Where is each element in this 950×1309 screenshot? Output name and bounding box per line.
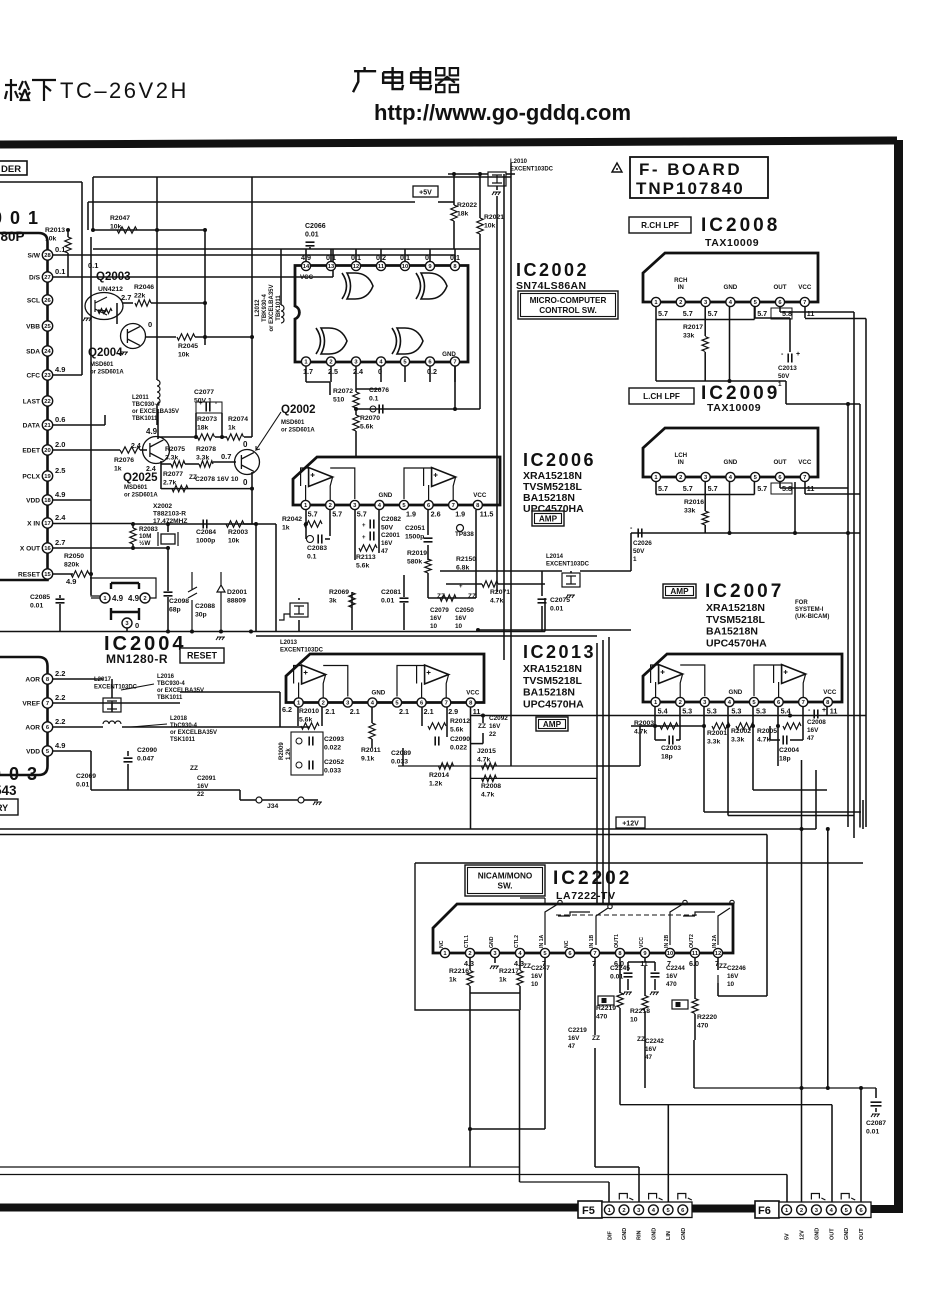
svg-text:C2244: C2244 <box>666 965 685 972</box>
wire <box>427 573 429 598</box>
ground <box>216 637 225 640</box>
svg-text:10k: 10k <box>110 223 122 230</box>
svg-text:30p: 30p <box>195 611 207 618</box>
svg-text:33k: 33k <box>683 332 695 339</box>
wire <box>470 992 520 994</box>
wire bus <box>827 829 829 1088</box>
svg-text:5.6k: 5.6k <box>360 423 373 430</box>
svg-text:GND: GND <box>622 1228 628 1240</box>
ground clip <box>619 1194 633 1201</box>
wire rail <box>0 1174 787 1176</box>
svg-text:C2083: C2083 <box>307 545 327 552</box>
wire <box>704 352 706 381</box>
svg-text:R2150: R2150 <box>456 556 476 563</box>
svg-text:FOR: FOR <box>795 600 808 606</box>
wire <box>628 961 655 963</box>
svg-text:20: 20 <box>44 448 50 454</box>
svg-text:NICAM/MONO: NICAM/MONO <box>478 871 533 880</box>
svg-text:R2219: R2219 <box>596 1005 616 1012</box>
svg-text:88809: 88809 <box>227 597 246 604</box>
capacitor <box>424 538 433 542</box>
svg-text:or 2SD601A: or 2SD601A <box>124 493 158 499</box>
connector F5 pin 1 <box>604 1205 614 1215</box>
svg-text:10k: 10k <box>45 235 57 242</box>
wire <box>656 319 754 321</box>
svg-text:4.9: 4.9 <box>55 741 65 750</box>
svg-text:CTL1: CTL1 <box>464 935 470 948</box>
op-amp <box>782 665 806 684</box>
svg-text:NC: NC <box>564 940 570 948</box>
resistor <box>482 775 497 781</box>
wire <box>644 958 646 962</box>
svg-text:2: 2 <box>679 475 682 481</box>
svg-text:10k: 10k <box>228 537 240 544</box>
wire <box>126 628 128 632</box>
svg-text:TbC930-4: TbC930-4 <box>170 723 198 729</box>
wire <box>594 1048 596 1167</box>
wire <box>454 255 456 261</box>
wire pin <box>355 366 357 382</box>
wire <box>786 403 860 405</box>
junction <box>751 724 755 728</box>
svg-text:7: 7 <box>803 475 806 481</box>
pin 8 <box>823 697 832 706</box>
junction <box>793 531 797 535</box>
wire <box>644 966 646 996</box>
svg-text:R2010: R2010 <box>299 708 319 715</box>
svg-text:0.01: 0.01 <box>550 605 563 612</box>
svg-text:0.022: 0.022 <box>324 744 341 751</box>
ground <box>490 966 499 969</box>
wire <box>427 545 429 560</box>
capacitor <box>56 599 65 603</box>
svg-text:IN: IN <box>678 459 685 466</box>
label box <box>536 717 568 731</box>
ground clip <box>811 1194 825 1201</box>
junction <box>452 172 456 176</box>
wire bus <box>853 312 855 838</box>
pin 1 <box>651 697 660 706</box>
junction <box>776 724 780 728</box>
wire <box>805 318 866 320</box>
svg-text:7: 7 <box>445 701 448 707</box>
capacitor <box>206 403 210 412</box>
wire bus <box>93 248 479 250</box>
junction <box>203 335 207 339</box>
svg-text:5.7: 5.7 <box>708 309 718 318</box>
svg-text:R2011: R2011 <box>361 747 381 754</box>
svg-text:Q2002: Q2002 <box>281 404 316 416</box>
junction <box>304 522 308 526</box>
svg-text:11: 11 <box>692 951 699 957</box>
pin 6 <box>775 472 784 481</box>
F-BOARD title box <box>630 157 768 198</box>
wire bus <box>496 196 498 592</box>
connector F5 pin 5 <box>663 1205 673 1215</box>
capacitor <box>651 973 660 977</box>
wire IN1A net <box>520 898 545 904</box>
svg-text:UN4212: UN4212 <box>98 286 123 293</box>
svg-text:50V: 50V <box>633 548 645 555</box>
IC2001 pin 18 VDD <box>42 495 52 505</box>
svg-text:2.4: 2.4 <box>353 367 363 376</box>
junction <box>131 522 135 526</box>
svg-text:C2087: C2087 <box>866 1120 886 1127</box>
wire <box>655 739 666 741</box>
resistor (Q2003 internal) <box>98 309 112 314</box>
wire net X IN <box>53 523 131 525</box>
wire <box>329 510 331 524</box>
wire <box>544 598 546 632</box>
IC2001 pin 28 S/W <box>42 250 52 260</box>
wire <box>321 707 323 726</box>
svg-text:C2242: C2242 <box>645 1038 664 1045</box>
svg-text:C2098: C2098 <box>169 598 189 605</box>
wire <box>325 538 330 540</box>
svg-text:17: 17 <box>44 521 50 527</box>
svg-text:R2005: R2005 <box>757 728 777 735</box>
junction <box>800 1086 804 1090</box>
svg-text:22: 22 <box>489 731 497 738</box>
wire <box>802 726 804 740</box>
wire <box>304 523 306 525</box>
wire op-amp A <box>651 665 705 697</box>
svg-text:Q2025: Q2025 <box>123 472 158 484</box>
wire <box>608 1182 610 1203</box>
svg-text:GND: GND <box>844 1228 850 1240</box>
svg-text:or EXCELBA35V: or EXCELBA35V <box>132 409 179 415</box>
svg-text:C2091: C2091 <box>197 775 216 782</box>
wire bus <box>544 958 546 1129</box>
pin 3 <box>701 472 710 481</box>
label box <box>180 648 224 663</box>
svg-text:R2021: R2021 <box>484 214 504 221</box>
svg-text:0.01: 0.01 <box>866 1128 879 1135</box>
connector F5 pin 2 <box>619 1205 629 1215</box>
wire net EDET <box>53 449 120 451</box>
svg-text:5.7: 5.7 <box>757 484 767 493</box>
pin 6 <box>774 697 783 706</box>
wire bus <box>865 319 867 828</box>
junction <box>846 531 850 535</box>
IC2002 pin 11 <box>376 261 385 270</box>
junction <box>476 628 480 632</box>
wire <box>215 436 227 438</box>
wire <box>305 524 307 539</box>
IC2002 pin 3 <box>351 357 360 366</box>
wire <box>753 482 755 495</box>
wire <box>378 510 380 553</box>
pin 4 <box>726 297 735 306</box>
resistor <box>130 528 136 544</box>
junction <box>91 228 95 232</box>
svg-text:EXCENT103DC: EXCENT103DC <box>510 167 554 173</box>
svg-text:2.1: 2.1 <box>399 707 409 716</box>
IC2001 pin 20 EDET <box>42 445 52 455</box>
svg-text:0.033: 0.033 <box>391 758 408 765</box>
wire <box>704 320 706 337</box>
IC2002 pin 2 <box>326 357 335 366</box>
wire op-amp A <box>294 666 348 698</box>
svg-text:DER: DER <box>1 164 21 175</box>
wire net DATA <box>53 424 105 426</box>
svg-text:R2017: R2017 <box>683 324 703 331</box>
connector F6 pin 1 <box>782 1205 792 1215</box>
IC2003 pin 6 AOR <box>42 722 52 732</box>
wire <box>59 604 61 632</box>
svg-text:EXCENT103DC: EXCENT103DC <box>94 685 138 691</box>
svg-text:2.4: 2.4 <box>131 443 141 450</box>
wire <box>127 751 129 756</box>
svg-text:33k: 33k <box>684 507 696 514</box>
svg-text:2: 2 <box>679 300 682 306</box>
switch SW1 (IN 1A) <box>545 904 608 945</box>
svg-text:TBC930-4: TBC930-4 <box>157 681 185 687</box>
svg-text:0 0 3: 0 0 3 <box>0 764 39 784</box>
svg-text:OUT: OUT <box>773 459 786 466</box>
wire <box>122 726 310 728</box>
svg-text:2.1: 2.1 <box>424 707 434 716</box>
svg-text:C2052: C2052 <box>324 759 344 766</box>
wire <box>655 482 657 495</box>
wire <box>448 173 488 175</box>
junction <box>249 630 253 634</box>
connector F6 pin 2 <box>797 1205 807 1215</box>
connector F6 pin 3 <box>812 1205 822 1215</box>
svg-text:R2019: R2019 <box>407 550 427 557</box>
svg-text:R2042: R2042 <box>282 516 302 523</box>
wire <box>694 958 696 999</box>
capacitor <box>164 592 173 596</box>
svg-text:C2004: C2004 <box>779 747 799 754</box>
IC2001 pin 19 PCLX <box>42 471 52 481</box>
svg-text:L.CH LPF: L.CH LPF <box>643 392 680 401</box>
junction <box>702 724 706 728</box>
svg-text:ZZ: ZZ <box>592 1035 600 1042</box>
label box DER (decoder) <box>0 161 27 175</box>
junction <box>826 827 830 831</box>
pin 3 <box>350 500 359 509</box>
IC2202 pin 6 NC <box>565 948 574 957</box>
wire <box>654 726 656 740</box>
IC2002 pin 12 <box>351 261 360 270</box>
svg-text:MSD601: MSD601 <box>124 485 148 491</box>
svg-text:0: 0 <box>135 621 139 630</box>
svg-text:ZZ: ZZ <box>637 1036 645 1043</box>
svg-text:TBK1011: TBK1011 <box>157 695 183 701</box>
svg-text:SDA: SDA <box>26 349 40 356</box>
svg-text:4.9: 4.9 <box>146 427 158 436</box>
svg-text:1k: 1k <box>449 976 457 983</box>
svg-text:10M: 10M <box>139 533 151 540</box>
svg-text:7: 7 <box>46 701 49 707</box>
svg-text:10: 10 <box>667 951 673 957</box>
svg-text:47: 47 <box>381 548 389 555</box>
svg-text:R2073: R2073 <box>197 416 217 423</box>
svg-text:RESET: RESET <box>18 572 40 579</box>
svg-text:1k: 1k <box>114 465 122 472</box>
IC2001 pin 17 X IN <box>42 518 52 528</box>
svg-text:510: 510 <box>333 396 345 403</box>
svg-text:5.6k: 5.6k <box>356 562 369 569</box>
wire pin <box>679 707 681 726</box>
svg-text:5.3: 5.3 <box>756 707 766 716</box>
network box (R2009) <box>291 732 323 775</box>
svg-text:18p: 18p <box>661 753 673 760</box>
pin 2 <box>676 297 685 306</box>
wire rail <box>470 1128 545 1130</box>
svg-text:ZZ: ZZ <box>523 963 531 970</box>
svg-text:C2076: C2076 <box>369 387 389 394</box>
wire <box>111 679 113 698</box>
pin 4 <box>725 697 734 706</box>
IC2001 pin 24 SDA <box>42 346 52 356</box>
wire net X OUT <box>53 547 131 549</box>
cjk glyph <box>32 80 56 101</box>
label box MEMORY (partial) <box>0 799 18 815</box>
wire pin <box>454 249 456 261</box>
pin 5 <box>751 297 760 306</box>
svg-text:2.2: 2.2 <box>55 717 65 726</box>
svg-text:16V: 16V <box>489 723 501 730</box>
capacitor C2083 value 0.1 <box>307 536 314 543</box>
IC2202 pin 7 IN 1B <box>590 948 599 957</box>
svg-text:IN 1A: IN 1A <box>539 934 545 948</box>
svg-text:TSK1011: TSK1011 <box>170 737 196 743</box>
IC2202 pin 9 VCC <box>640 948 649 957</box>
resistor <box>482 763 497 769</box>
resistor <box>660 723 678 729</box>
wire <box>729 482 731 533</box>
svg-text:580k: 580k <box>407 558 422 565</box>
svg-text:18p: 18p <box>779 755 791 762</box>
svg-text:5V: 5V <box>785 1233 791 1240</box>
capacitor <box>669 736 673 745</box>
resistor <box>65 237 71 253</box>
IC2003 pin 8 AOR <box>42 674 52 684</box>
svg-text:Q2003: Q2003 <box>96 271 131 283</box>
callout arrow <box>256 412 281 450</box>
svg-text:5.3: 5.3 <box>682 707 692 716</box>
svg-text:C2090: C2090 <box>137 747 157 754</box>
pin 4 <box>368 698 377 707</box>
wire bus <box>859 404 861 828</box>
svg-text:470: 470 <box>697 1022 709 1029</box>
svg-text:16V: 16V <box>645 1046 657 1053</box>
svg-text:RESET: RESET <box>187 651 218 661</box>
svg-text:C2219: C2219 <box>568 1027 587 1034</box>
resistor <box>440 595 456 601</box>
capacitor <box>435 737 439 746</box>
wire <box>438 201 454 203</box>
wire <box>89 573 91 575</box>
svg-text:+: + <box>796 351 800 358</box>
wire <box>704 811 861 813</box>
resistor <box>467 971 473 986</box>
svg-text:XRA15218N: XRA15218N <box>523 663 582 675</box>
svg-text:L2011: L2011 <box>132 395 149 401</box>
wire pin <box>380 366 382 382</box>
svg-text:5.7: 5.7 <box>658 309 668 318</box>
svg-text:4.9: 4.9 <box>55 490 65 499</box>
wire <box>654 962 656 971</box>
wire <box>403 603 405 630</box>
junction <box>846 402 850 406</box>
wire <box>446 707 448 737</box>
IC2002 pin 13 <box>326 261 335 270</box>
transistor <box>143 437 170 464</box>
wire <box>167 548 169 591</box>
svg-text:C2085: C2085 <box>30 594 50 601</box>
resistor <box>226 521 244 527</box>
svg-text:R2069: R2069 <box>329 589 349 596</box>
junction <box>254 522 258 526</box>
wire <box>251 472 253 489</box>
svg-text:C2081: C2081 <box>381 589 401 596</box>
transistor <box>235 450 260 475</box>
svg-text:EDET: EDET <box>22 448 40 455</box>
svg-text:VDD: VDD <box>26 498 40 505</box>
wire rail <box>471 715 867 717</box>
switch SW2 (IN 2B) <box>670 904 730 945</box>
wire rail <box>471 777 598 779</box>
svg-text:C2090: C2090 <box>450 736 470 743</box>
wire <box>355 408 357 415</box>
svg-text:7: 7 <box>803 300 806 306</box>
svg-text:R2050: R2050 <box>64 553 84 560</box>
resistor <box>171 461 185 467</box>
wire <box>656 494 754 496</box>
wire <box>415 862 863 864</box>
svg-text:1.2k: 1.2k <box>429 780 442 787</box>
wire rail <box>256 635 597 637</box>
wire <box>479 174 481 218</box>
svg-text:16V: 16V <box>727 973 739 980</box>
svg-text:11: 11 <box>807 309 815 318</box>
wire <box>111 703 113 712</box>
svg-text:GND: GND <box>489 936 495 948</box>
wire <box>355 382 357 392</box>
IC2003 pin 7 VREF <box>42 698 52 708</box>
wire rail <box>0 631 545 633</box>
svg-text:0.01: 0.01 <box>381 597 394 604</box>
wire <box>704 307 706 320</box>
svg-text:R2045: R2045 <box>178 343 198 350</box>
svg-text:TP838: TP838 <box>455 531 474 538</box>
junction <box>89 572 93 576</box>
ground clip <box>649 1194 663 1201</box>
capacitor <box>203 520 207 529</box>
jumper icon 2 <box>672 1000 688 1009</box>
triangle marker <box>612 163 622 172</box>
svg-text:12V: 12V <box>800 1230 806 1240</box>
capacitor <box>306 242 315 246</box>
svg-text:10: 10 <box>455 623 463 630</box>
svg-text:0 0 1: 0 0 1 <box>0 208 40 228</box>
wire <box>92 177 94 230</box>
wire <box>453 174 455 205</box>
transistor Q2003 ref UN4212 <box>85 293 123 320</box>
svg-text:GND: GND <box>651 1228 657 1240</box>
svg-text:2.5: 2.5 <box>55 466 65 475</box>
wire <box>446 583 482 585</box>
wire <box>594 958 596 1035</box>
wire bus <box>93 176 511 178</box>
wire <box>332 249 334 277</box>
svg-text:4.7k: 4.7k <box>477 756 490 763</box>
svg-text:R2001: R2001 <box>707 730 727 737</box>
wire <box>496 186 498 190</box>
